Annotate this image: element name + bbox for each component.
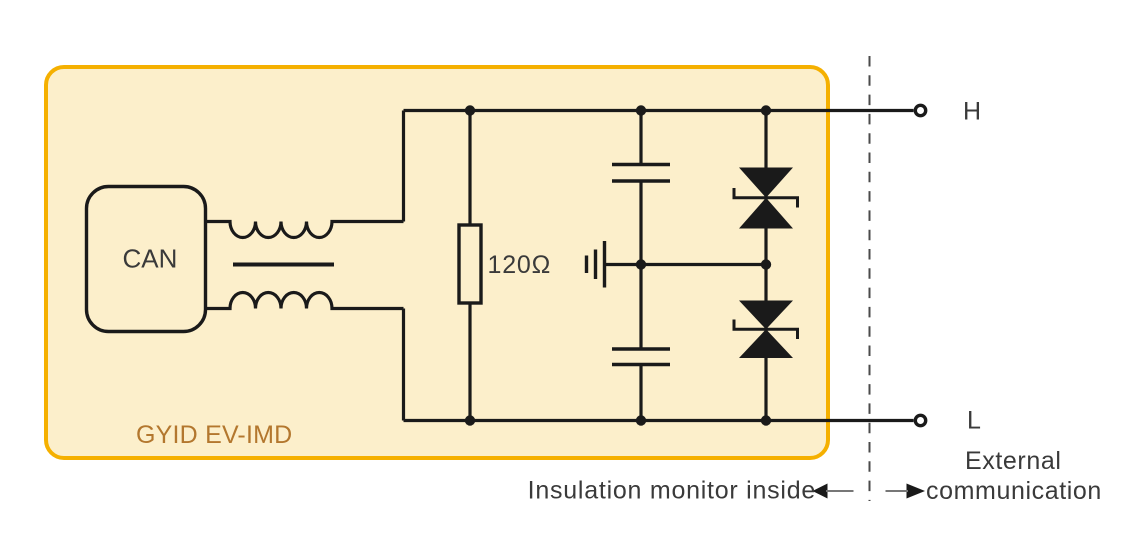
svg-text:L: L <box>967 407 981 435</box>
svg-text:CAN: CAN <box>123 244 178 274</box>
svg-text:communication: communication <box>926 477 1102 505</box>
svg-text:External: External <box>965 447 1062 475</box>
svg-text:120Ω: 120Ω <box>488 251 552 279</box>
svg-text:H: H <box>963 98 981 126</box>
svg-text:GYID EV-IMD: GYID EV-IMD <box>136 421 292 449</box>
svg-text:Insulation monitor inside: Insulation monitor inside <box>528 477 816 505</box>
